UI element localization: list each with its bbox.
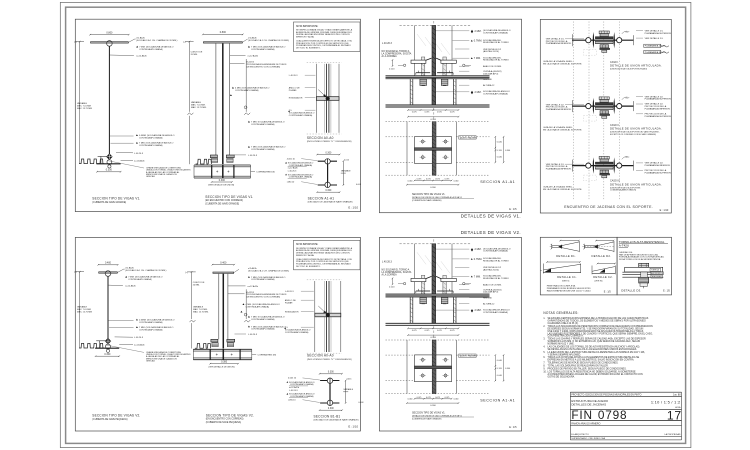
svg-text:CASO III.: CASO III. <box>610 180 620 183</box>
svg-text:(ACERO PALMER): (ACERO PALMER) <box>460 355 477 358</box>
svg-text:GRECAS: GRECAS <box>146 175 155 178</box>
svg-text:CON PENETRACION COMPLETA.: CON PENETRACION COMPLETA. <box>548 335 584 338</box>
dashed grid verticals <box>572 22 574 201</box>
svg-text:COMUNES A AMBOS VANOS): COMUNES A AMBOS VANOS) <box>610 189 636 192</box>
svg-text:VARIABLE: VARIABLE <box>341 170 351 173</box>
svg-text:AVALO DE 20 MM.: AVALO DE 20 MM. <box>483 65 502 68</box>
dimension 0.300 bottom <box>96 355 120 357</box>
svg-text:LA PROPIEDAD: LA PROPIEDAD <box>664 433 680 436</box>
dimension top (double column) <box>212 264 234 266</box>
weld marks right column <box>243 303 245 305</box>
svg-text:EXCEPTO LOS COMUNES CON EL VAN: EXCEPTO LOS COMUNES CON EL VANO GRANDE) <box>610 133 656 136</box>
seccion A0-A0 center weld dot <box>326 313 330 317</box>
svg-text:(EN ENCUENTRO CON CORREAS): (EN ENCUENTRO CON CORREAS) <box>205 199 243 202</box>
seat plate right <box>441 278 456 281</box>
left dimension line with break <box>191 272 193 319</box>
svg-text:DETALLES DE VIGAS V2.: DETALLES DE VIGAS V2. <box>461 230 521 235</box>
svg-text:±280.10: ±280.10 <box>288 399 296 401</box>
column center web <box>222 274 224 349</box>
svg-text:PLATABANDA 150x15: PLATABANDA 150x15 <box>645 45 667 48</box>
plan bolts <box>421 358 424 361</box>
svg-text:L 40.26.3: L 40.26.3 <box>382 42 393 45</box>
svg-text:PLATABANDA INFERIOR.: PLATABANDA INFERIOR. <box>546 42 572 45</box>
dimension top (single beam) <box>98 264 117 266</box>
beam end bars <box>571 34 573 46</box>
svg-text:E : 1/5: E : 1/5 <box>509 426 517 429</box>
svg-text:0.040: 0.040 <box>454 180 459 182</box>
dashed detail rect <box>584 116 597 122</box>
svg-text:CONTINUA APLOMADA): CONTINUA APLOMADA) <box>139 48 163 51</box>
seat plate left <box>411 278 426 281</box>
svg-text:e=12 A42b: e=12 A42b <box>134 344 145 347</box>
weld note right mid <box>248 316 250 318</box>
flange note leader <box>242 39 247 42</box>
plan view side walls <box>406 340 408 394</box>
svg-text:PLATABANDA SUPERIOR.: PLATABANDA SUPERIOR. <box>645 32 672 35</box>
svg-text:4.015: 4.015 <box>344 159 350 161</box>
correa tick marks <box>216 354 218 356</box>
corrugated deck left of correa <box>195 344 208 349</box>
seccion A0-A0 outer box <box>314 281 316 352</box>
svg-text:0.300: 0.300 <box>505 368 511 370</box>
weld note 7mm bottom <box>136 142 138 144</box>
svg-text:NOTAS GENERALES:: NOTAS GENERALES: <box>543 311 578 315</box>
beam bottom flange lines <box>386 104 490 106</box>
svg-text:PLATABANDA INFERIOR.: PLATABANDA INFERIOR. <box>546 108 572 111</box>
ibeam web <box>327 161 329 185</box>
svg-text:DETALLES DE VIGAS V1.: DETALLES DE VIGAS V1. <box>461 214 521 219</box>
splice bolts <box>211 158 217 162</box>
dimension 0.300 under correa <box>210 363 238 365</box>
dimension top (single beam) <box>90 34 129 36</box>
leader bottom plate <box>121 159 133 161</box>
title block rule 2 <box>570 396 681 398</box>
weld note right mid <box>248 121 250 123</box>
seccion A0-A0 dashed guide top/bottom <box>307 62 342 64</box>
svg-text:CONTINUA APLOMADA): CONTINUA APLOMADA) <box>290 395 314 398</box>
ibeam top flange <box>320 380 339 382</box>
svg-text:4.2°: 4.2° <box>626 98 630 100</box>
svg-text:0.300: 0.300 <box>328 372 334 374</box>
svg-text:20 MM.: 20 MM. <box>193 284 200 286</box>
weld note at splice level <box>248 326 250 328</box>
svg-text:SECCION A1-A1: SECCION A1-A1 <box>480 398 515 402</box>
svg-text:0.300: 0.300 <box>328 408 334 410</box>
svg-text:A LA CORREA: A LA CORREA <box>382 274 398 277</box>
svg-text:0.075: 0.075 <box>426 179 431 181</box>
svg-text:0.075: 0.075 <box>445 179 450 181</box>
splice plates <box>210 155 217 158</box>
svg-text:RIGIDIZADOR AL TORNO: RIGIDIZADOR AL TORNO <box>483 59 509 62</box>
title block side rules <box>569 392 571 440</box>
svg-text:SECCION TIPO DE VIGAS V1.: SECCION TIPO DE VIGAS V1. <box>412 411 446 414</box>
svg-text:0.300: 0.300 <box>219 179 226 182</box>
svg-text:0.300: 0.300 <box>430 337 436 339</box>
svg-text:(DE ENCUENTRO CON CORREAS): (DE ENCUENTRO CON CORREAS) <box>246 65 280 68</box>
plan bottom dims <box>415 398 452 400</box>
svg-text:A LA CORREA: A LA CORREA <box>382 55 398 58</box>
svg-text:DE TODO EL ELEMENTO.: DE TODO EL ELEMENTO. <box>296 48 321 50</box>
svg-text:PLATABANDA SUPERIOR.: PLATABANDA SUPERIOR. <box>645 171 672 174</box>
flange lens left <box>593 157 594 173</box>
svg-text:(VER DETALLE DE UNION): (VER DETALLE DE UNION) <box>209 365 235 368</box>
svg-text:NO SOLDAR EL TORNO A: NO SOLDAR EL TORNO A <box>382 50 410 53</box>
bolt D3 shank <box>641 272 648 277</box>
svg-text:L 40.26.3: L 40.26.3 <box>289 75 298 77</box>
svg-text:PROCESO DE PINTADO EN TALLER,: PROCESO DE PINTADO EN TALLER, SEGUN PLIE… <box>548 368 627 371</box>
svg-text:PLATABANDA SUPERIOR.: PLATABANDA SUPERIOR. <box>645 98 672 101</box>
svg-text:DETALLE C1.: DETALLE C1. <box>557 275 577 279</box>
ibeam dim 0.300 top <box>317 154 339 156</box>
weld prep wedge <box>583 244 585 248</box>
svg-text:DETALLE DE UNION ARTICULADA: DETALLE DE UNION ARTICULADA. <box>610 127 662 131</box>
svg-text:(VER W): (VER W) <box>595 281 603 283</box>
seccion A0-A0 outer box <box>315 64 317 133</box>
svg-text:L 40.26.3: L 40.26.3 <box>248 155 258 157</box>
flange lens right <box>614 98 615 114</box>
svg-text:MAX. 15.75 MM.: MAX. 15.75 MM. <box>193 310 209 313</box>
pin circle at flange <box>105 271 111 277</box>
plan beam flange dashed lines <box>386 354 415 356</box>
svg-text:CONTINUA APLOMADA): CONTINUA APLOMADA) <box>139 321 163 324</box>
column center dark band <box>432 26 436 106</box>
svg-text:EN LA ZONA DE UNION AL SOPORTE: EN LA ZONA DE UNION AL SOPORTE. <box>543 188 582 191</box>
bottom web weld diamond <box>105 338 111 345</box>
right annotations column <box>471 30 473 33</box>
ibeam pin circle top <box>327 378 332 383</box>
svg-text:CONTINUA APLOMADA): CONTINUA APLOMADA) <box>251 278 275 281</box>
plan splice plate <box>415 137 452 164</box>
svg-text:FIN: FIN <box>571 408 592 422</box>
svg-text:0.075: 0.075 <box>425 112 430 114</box>
faint hatch scribbles <box>417 252 426 264</box>
nota importante box P2 <box>294 240 361 269</box>
svg-text:LA COMPRESORA, SI ESTA: LA COMPRESORA, SI ESTA <box>382 53 412 56</box>
dims under beam row2 0.300 <box>408 116 459 118</box>
seccion A0-A0 column web lines <box>326 64 328 133</box>
svg-text:CONTINUA APLOMADA): CONTINUA APLOMADA) <box>483 93 508 96</box>
svg-text:(INCLUYENDO PERFIL “U” Y RIGID: (INCLUYENDO PERFIL “U” Y RIGIDIZADOR) <box>307 358 352 361</box>
svg-text:0.075: 0.075 <box>445 397 450 399</box>
bolt right nut <box>441 79 448 85</box>
bolt D3 upper plate <box>625 267 663 272</box>
svg-text:DETALLE DE UNION ARTICULADA: DETALLE DE UNION ARTICULADA. <box>610 64 662 68</box>
title block rule 4 <box>570 420 681 422</box>
svg-text:0.075: 0.075 <box>435 397 440 399</box>
plan bolts <box>421 140 424 143</box>
box column outer walls <box>218 274 220 340</box>
svg-text:DETALLE D1.: DETALLE D1. <box>556 254 576 258</box>
dimension top (double column) <box>203 33 243 35</box>
plan bottom dims <box>415 180 452 182</box>
svg-text:AVALO DE 20 MM.: AVALO DE 20 MM. <box>483 283 502 286</box>
svg-text:E : 1/5: E : 1/5 <box>509 208 517 211</box>
splice plate stack <box>599 31 609 34</box>
correa tick marks <box>216 171 218 173</box>
svg-text:SECCION A1-A1: SECCION A1-A1 <box>480 180 515 184</box>
left small dim 0.120 <box>392 60 394 66</box>
beam web stiffener verticals <box>409 79 411 105</box>
ibeam bottom flange <box>320 402 339 404</box>
ibeam dim 0.300 bottom <box>317 191 339 193</box>
svg-text:SECCION A0-A0: SECCION A0-A0 <box>307 136 334 140</box>
svg-text:(CUBIERTA DE NAVE GRANDE): (CUBIERTA DE NAVE GRANDE) <box>412 199 442 202</box>
svg-text:CORREA HEB 180: CORREA HEB 180 <box>256 171 275 174</box>
bottom angle cleat <box>98 155 109 157</box>
plan beam web band horizontal <box>415 148 452 151</box>
leader to flange note <box>117 269 123 272</box>
svg-text:VER DETALLE D1.: VER DETALLE D1. <box>645 37 664 40</box>
svg-text:(CALZAR APO): (CALZAR APO) <box>483 72 498 75</box>
svg-text:LA COMPRESORA, SI ESTA: LA COMPRESORA, SI ESTA <box>382 271 412 274</box>
seat plate right <box>441 60 456 63</box>
svg-text:CONTINUA APLOMADA): CONTINUA APLOMADA) <box>251 123 275 126</box>
svg-text:0.040: 0.040 <box>497 142 503 144</box>
svg-text:PLATAF.: PLATAF. <box>289 89 297 92</box>
svg-text:DETALLE DE UNION DE LAS CORREA: DETALLE DE UNION DE LAS CORREAS A LA VIG… <box>412 414 463 417</box>
svg-text:E : 1/10: E : 1/10 <box>348 206 358 210</box>
svg-text:DETALLES DE JACENAS: DETALLES DE JACENAS <box>571 403 606 407</box>
svg-text:SECCION TIPO DE VIGAS V1.: SECCION TIPO DE VIGAS V1. <box>205 195 253 199</box>
svg-text:GOTAS DE SOLDADURA.: GOTAS DE SOLDADURA. <box>548 375 576 378</box>
beam top flange <box>99 272 118 273</box>
detalle C2 wedge <box>592 272 615 274</box>
svg-text:0.075: 0.075 <box>412 112 417 114</box>
acero palmer tag <box>459 354 476 357</box>
svg-text:L 40.26.3: L 40.26.3 <box>382 260 393 263</box>
plan column hatched band vertical <box>432 340 436 394</box>
svg-text:SECCION B1-B1: SECCION B1-B1 <box>314 415 341 419</box>
svg-text:INFERIOR Y ALMA.: INFERIOR Y ALMA. <box>296 254 315 257</box>
flange lens right <box>614 32 615 48</box>
svg-text:ALTURA 12: ALTURA 12 <box>483 84 495 87</box>
title block rule 3 <box>570 409 681 411</box>
top flange plate <box>203 42 242 43</box>
ibeam pin circle bottom <box>327 400 332 405</box>
svg-text:0.040: 0.040 <box>408 180 413 182</box>
splice plate stack <box>599 97 609 100</box>
leader web plate note <box>108 284 123 287</box>
svg-text:0.075: 0.075 <box>450 330 455 332</box>
svg-text:0.400: 0.400 <box>220 262 227 265</box>
ibeam top flange <box>318 160 337 162</box>
column center dark band <box>432 244 436 323</box>
svg-text:0.120: 0.120 <box>389 68 395 70</box>
column flange thin lines <box>414 26 416 77</box>
svg-text:(UNION DE VIGA V1 A SOPORTE (P: (UNION DE VIGA V1 A SOPORTE (PLANO) <box>610 68 648 71</box>
svg-text:1:10 / 1:5 / 1:2: 1:10 / 1:5 / 1:2 <box>651 400 681 405</box>
bottom angle cleat <box>96 340 107 342</box>
svg-text:0.400: 0.400 <box>105 262 112 265</box>
svg-text:0.040: 0.040 <box>497 157 503 159</box>
svg-text:(CALZAR APO): (CALZAR APO) <box>483 291 498 294</box>
svg-text:(+): (+) <box>183 42 186 44</box>
plan right dims <box>494 355 496 381</box>
ibeam bottom flange <box>318 184 337 186</box>
leader web plate note <box>109 54 133 57</box>
deck note leader <box>107 161 144 169</box>
bolt D3 washer bottom <box>640 283 647 286</box>
svg-text:NOTA IMPORTANTE:: NOTA IMPORTANTE: <box>296 243 319 246</box>
svg-text:2 MM.: 2 MM. <box>475 309 482 312</box>
svg-text:CONTINUA APLOMADA): CONTINUA APLOMADA) <box>139 328 163 331</box>
plan right dims <box>494 137 496 163</box>
bottom gusset circle <box>107 160 112 165</box>
svg-text:0.300: 0.300 <box>430 119 436 121</box>
ibeam web <box>329 381 331 404</box>
weld note at splice level <box>248 146 250 148</box>
seccion A0-A0 dashed guide top/bottom <box>307 279 342 281</box>
panel frame detalles de vigas <box>379 238 521 432</box>
svg-text:CONTINUA APLOMADA): CONTINUA APLOMADA) <box>139 144 163 147</box>
bolt D3 plate lines <box>622 271 663 273</box>
platabanda boxed labels <box>644 44 661 47</box>
bolt D3 nut <box>639 277 649 283</box>
left dimension line with break <box>188 42 190 112</box>
correa label <box>251 171 255 173</box>
svg-text:CONTINUA APLOMADA): CONTINUA APLOMADA) <box>289 114 313 117</box>
detail box D3 frame <box>617 237 671 295</box>
svg-text:NO SOLDAR EL TORNO A: NO SOLDAR EL TORNO A <box>382 268 410 271</box>
svg-text:(CUBIERTA DE NAVE GRANDE): (CUBIERTA DE NAVE GRANDE) <box>412 417 442 420</box>
svg-text:CORREA HEB 180: CORREA HEB 180 <box>258 354 277 357</box>
plan beam flange dashed lines <box>386 136 415 138</box>
seccion A0-A0 leader arrow <box>318 306 326 314</box>
svg-text:CONTINUA APLOMADA): CONTINUA APLOMADA) <box>246 305 270 308</box>
svg-text:20 MM.: 20 MM. <box>191 54 198 56</box>
bolt D3 labels <box>650 268 661 271</box>
dimension 0.300 bottom <box>97 171 121 173</box>
svg-text:TOTAL LAS SOLDADURAS SE REALIZ: TOTAL LAS SOLDADURAS SE REALIZARAN EN TA… <box>548 365 609 368</box>
svg-text:4.2°: 4.2° <box>626 157 630 159</box>
top dashed construction line <box>400 243 471 245</box>
weld marks right column <box>232 87 234 89</box>
svg-text:0.075: 0.075 <box>426 397 431 399</box>
svg-text:RAMON ARAUJO ARMERO: RAMON ARAUJO ARMERO <box>571 422 600 425</box>
bolt left shank <box>421 57 424 76</box>
svg-text:0.120: 0.120 <box>497 368 503 370</box>
svg-text:e=12 A42b: e=12 A42b <box>248 55 259 58</box>
svg-text:MAX. 15.75 MM: MAX. 15.75 MM <box>77 310 92 313</box>
svg-text:EXPRESAN EN METROS A LOS MILIM: EXPRESAN EN METROS A LOS MILIMETROS, SAL… <box>548 359 635 362</box>
svg-text:(CUBIERTA DE NAVE PEQUENA): (CUBIERTA DE NAVE PEQUENA) <box>206 421 241 424</box>
panel P5 frame - encuentro de jacenas <box>540 19 671 213</box>
leader to flange note <box>128 39 134 42</box>
svg-text:(VER V): (VER V) <box>562 281 570 283</box>
right annotation leaders <box>436 248 470 250</box>
svg-text:0.075: 0.075 <box>437 330 442 332</box>
svg-text:ALA VIGAS: ALA VIGAS <box>652 276 663 279</box>
bottom gusset circle <box>106 344 111 349</box>
svg-text:0.040: 0.040 <box>454 399 459 401</box>
svg-text:PLATABANDA 300x15: PLATABANDA 300x15 <box>645 51 667 54</box>
svg-text:DETALLE D2.: DETALLE D2. <box>592 254 612 258</box>
pin circle left <box>586 104 591 109</box>
svg-text:RIGIDIZADOR: RIGIDIZADOR <box>285 311 299 314</box>
flange lens left <box>593 32 594 48</box>
acero palmer tag <box>459 136 476 139</box>
svg-text:DETALLE D3.: DETALLE D3. <box>621 289 641 293</box>
ibeam pin circle top <box>325 159 330 164</box>
angle seat left <box>416 72 430 74</box>
splice plates <box>211 339 218 342</box>
left small dim 0.120 <box>392 278 394 284</box>
plan splice plate <box>415 355 452 382</box>
svg-text:0.075: 0.075 <box>435 179 440 181</box>
svg-text:4.015: 4.015 <box>346 379 352 381</box>
svg-text:Y SERAN SIEMPRE APLOMED.: Y SERAN SIEMPRE APLOMED. <box>548 353 582 356</box>
angle seat right <box>437 290 453 292</box>
svg-text:L 40.26.3: L 40.26.3 <box>134 153 144 155</box>
box column outer walls <box>215 43 217 155</box>
seccion A0-A0 column web lines <box>326 281 328 352</box>
svg-text:(ACERO PALMER): (ACERO PALMER) <box>460 136 477 139</box>
svg-text:CONTINUA APLOMADA): CONTINUA APLOMADA) <box>128 278 152 281</box>
title block rule 5 <box>570 425 681 427</box>
svg-text:0.300: 0.300 <box>505 150 511 152</box>
svg-text:CONTINUA APLOMADA): CONTINUA APLOMADA) <box>285 331 309 334</box>
svg-text:e=12 A42b: e=12 A42b <box>248 285 259 288</box>
seccion A0-A0 leader arrow <box>318 90 326 98</box>
svg-text:L 40.26.3: L 40.26.3 <box>289 390 298 392</box>
bolt D3 hex head <box>639 263 649 267</box>
svg-text:Jun. 88: Jun. 88 <box>673 394 681 396</box>
svg-text:INFERIOR Y ALMA.: INFERIOR Y ALMA. <box>296 36 315 39</box>
splice plate stack <box>599 156 609 159</box>
svg-text:SECCION TIPO DE VIGAS V1.: SECCION TIPO DE VIGAS V1. <box>412 193 446 196</box>
svg-text:EL ARQUITECTO: EL ARQUITECTO <box>571 433 589 436</box>
top flange plate <box>213 272 234 273</box>
svg-text:DETALLE C2.: DETALLE C2. <box>593 275 613 279</box>
bolt left nut <box>420 79 427 85</box>
svg-text:(INCLUYENDO PERFIL “U” Y RIGID: (INCLUYENDO PERFIL “U” Y RIGIDIZADOR) <box>307 140 352 143</box>
seccion A0-A0 horizontal stiffener <box>315 313 341 317</box>
svg-text:RADIOGRAFIA SEGUN UNE 14011 Y: RADIOGRAFIA SEGUN UNE 14011 Y 14044 <box>547 290 592 293</box>
plan view dashed top/bottom edges <box>386 121 490 123</box>
svg-text:PLACA CAB.: PLACA CAB. <box>652 272 664 275</box>
panel P1 frame - SECCION TIPO DE VIGAS V1 <box>75 19 360 211</box>
faint hatch scribbles <box>417 34 426 46</box>
svg-text:SECCION TIPO DE VIGAS V2.: SECCION TIPO DE VIGAS V2. <box>206 413 254 417</box>
beam top flange band <box>386 76 490 78</box>
ibeam dim 0.300 bottom <box>320 409 342 411</box>
right annotations column <box>471 248 473 251</box>
svg-text:PLATABANDA INFERIOR.: PLATABANDA INFERIOR. <box>645 164 671 167</box>
pin circle right <box>617 38 622 43</box>
svg-text:PLATABANDA INFERIOR.: PLATABANDA INFERIOR. <box>546 168 572 171</box>
detail box D1-C2 frame <box>540 237 617 295</box>
right guide line with break <box>245 59 247 112</box>
ibeam leader lines <box>303 378 320 380</box>
left height dimension line <box>79 42 81 164</box>
seccion A0-A0 horizontal stiffener <box>316 97 339 101</box>
svg-text:(+): (+) <box>74 272 77 274</box>
title block rule 6 <box>570 435 681 437</box>
svg-text:E : 1/10: E : 1/10 <box>660 209 669 212</box>
svg-text:(ALETAS 20/20): (ALETAS 20/20) <box>483 269 499 272</box>
svg-text:CONTINUA APLOMADA): CONTINUA APLOMADA) <box>235 89 259 92</box>
small circles on seat <box>403 64 405 66</box>
detalle C1 wedge <box>543 271 580 273</box>
title block top rule <box>570 391 681 393</box>
svg-text:7 MM.: 7 MM. <box>474 275 481 278</box>
svg-text:0.075: 0.075 <box>425 330 430 332</box>
svg-text:DE TODO EL ELEMENTO.: DE TODO EL ELEMENTO. <box>296 266 321 268</box>
correa box beam <box>194 164 251 166</box>
svg-text:4.2°: 4.2° <box>626 32 630 34</box>
svg-text:SECCION A1-A1: SECCION A1-A1 <box>308 196 335 200</box>
beam axis line <box>572 39 633 41</box>
